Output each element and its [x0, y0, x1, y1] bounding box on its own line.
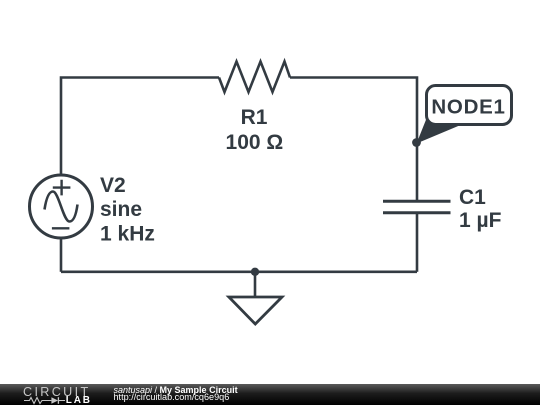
wire: resistor right terminal to corner down to capacitor top plate	[290, 78, 417, 202]
svg-text:LAB: LAB	[66, 395, 92, 405]
footer url text	[114, 392, 230, 402]
wire: capacitor bottom plate to bottom rail	[416, 213, 419, 272]
ground	[229, 272, 282, 324]
footer bar	[0, 384, 540, 405]
callout pointer NODE1	[417, 116, 464, 144]
svg-text:V2: V2	[100, 174, 126, 197]
node dot NODE1	[412, 138, 421, 147]
svg-text:R1: R1	[241, 106, 268, 129]
footer title text	[114, 385, 238, 395]
junction dot at ground	[251, 268, 259, 276]
svg-text:NODE1: NODE1	[431, 96, 505, 119]
resistor R1	[219, 62, 290, 93]
svg-text:100 Ω: 100 Ω	[226, 131, 284, 154]
wire: bottom rail	[61, 270, 417, 273]
CircuitLab logo	[0, 384, 100, 405]
svg-text:1 µF: 1 µF	[459, 209, 502, 232]
callout box NODE1	[427, 86, 512, 125]
wire: source bottom to bottom rail	[60, 239, 63, 272]
svg-text:sine: sine	[100, 198, 142, 221]
voltage source V2	[30, 175, 93, 238]
svg-text:1 kHz: 1 kHz	[100, 222, 155, 245]
svg-text:C1: C1	[459, 186, 486, 209]
wire: source top to corner to resistor left terminal	[61, 78, 219, 177]
capacitor C1 plates	[383, 201, 451, 213]
